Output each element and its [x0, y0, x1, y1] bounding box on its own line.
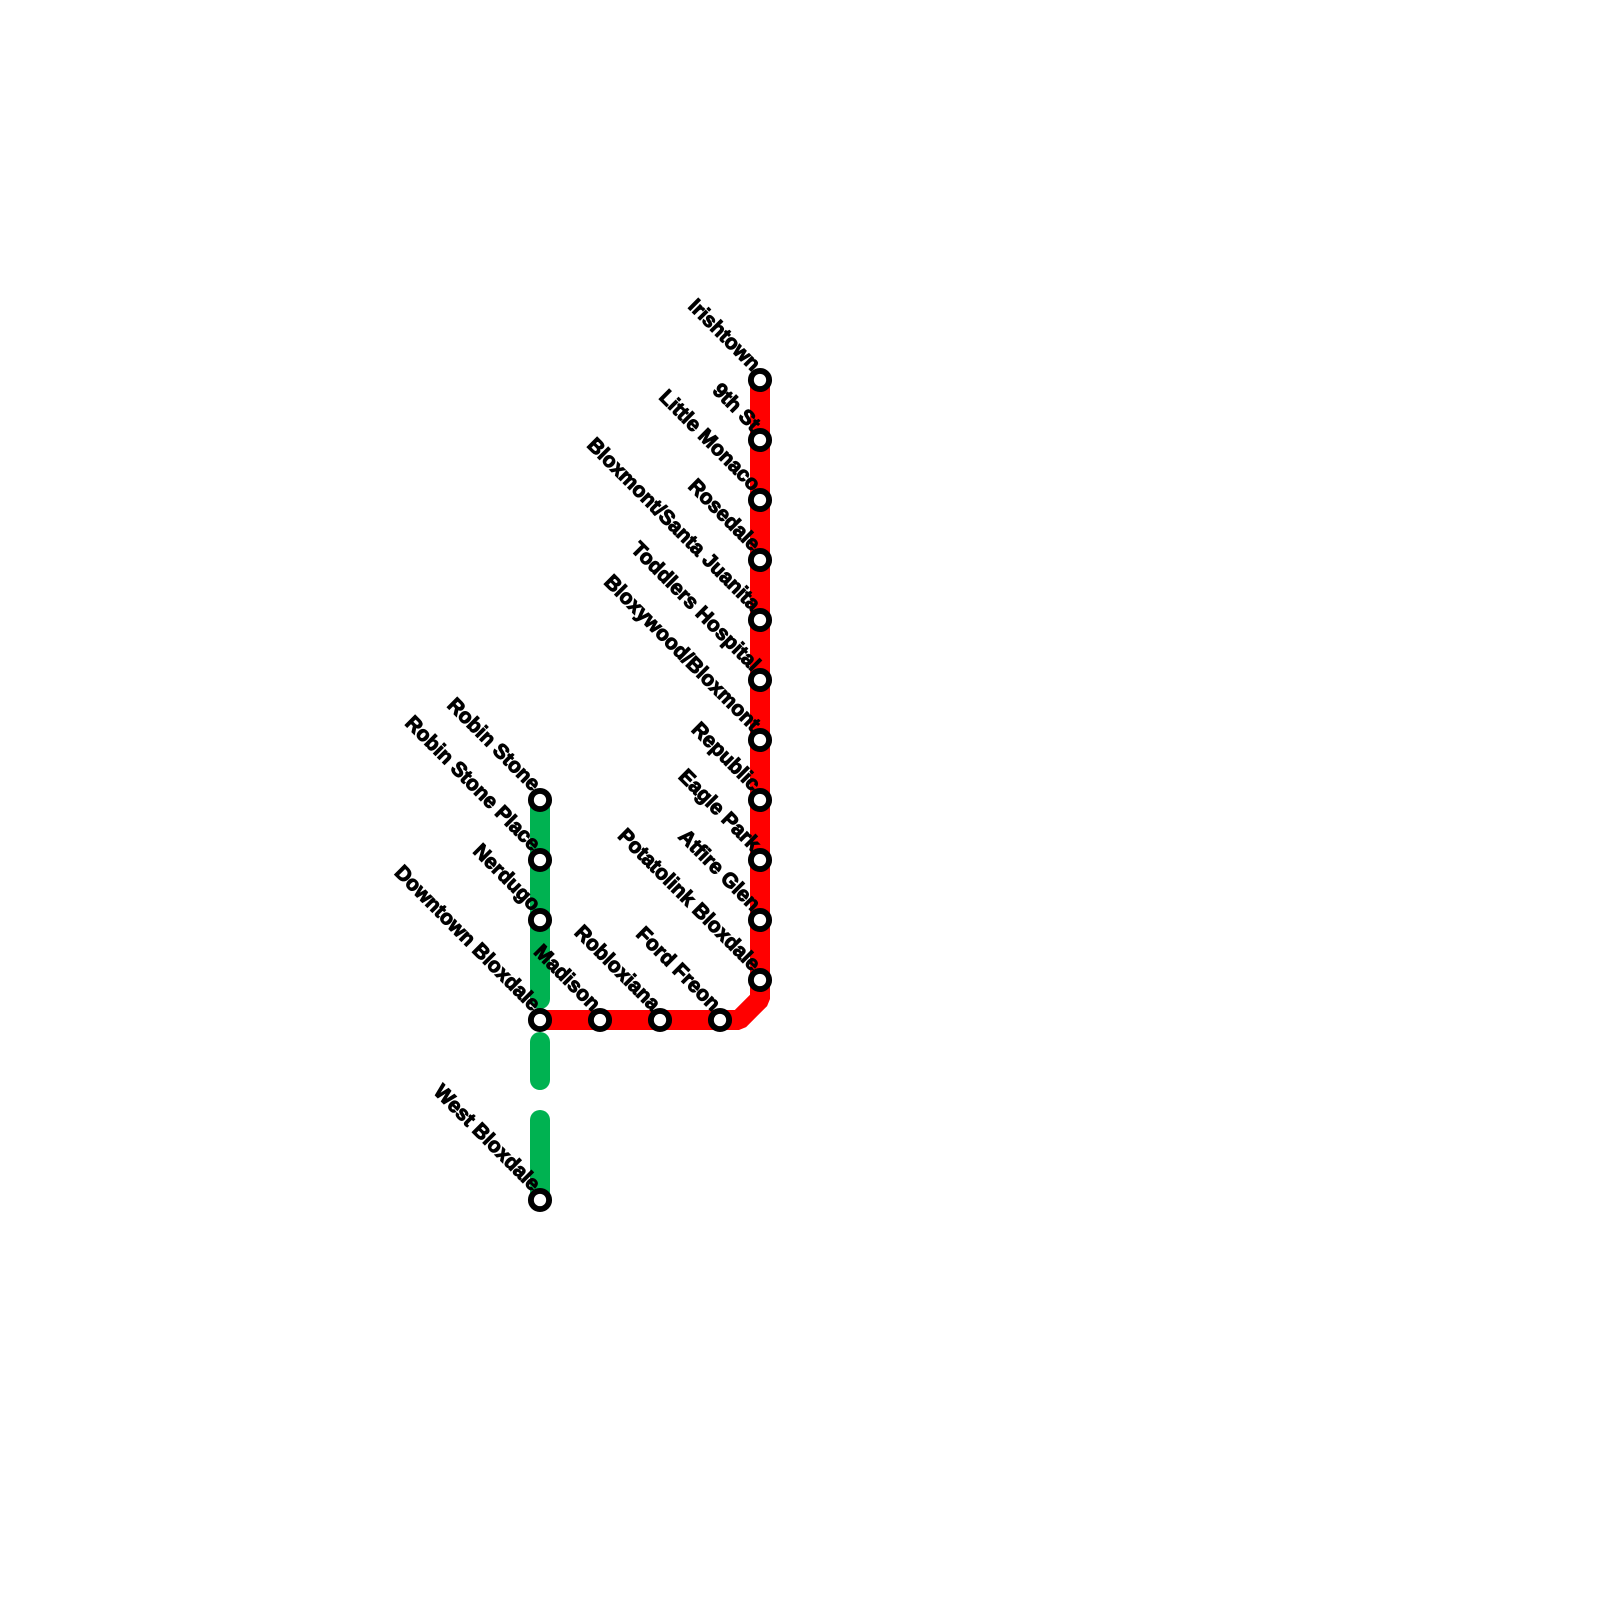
station Downtown Bloxdale marker	[531, 1011, 549, 1029]
station West Bloxdale marker	[531, 1191, 549, 1209]
station Toddlers Hospital marker	[751, 671, 769, 689]
station Little Monaco marker	[751, 491, 769, 509]
station Robin Stone marker	[531, 791, 549, 809]
station Madison marker	[591, 1011, 609, 1029]
green line segment Robin Stone to junction at red line	[530, 800, 550, 999]
station Rosedale marker	[751, 551, 769, 569]
station Republic marker	[751, 791, 769, 809]
station Atfire Glen marker	[751, 911, 769, 929]
station Bloxywood/Bloxmont marker	[751, 731, 769, 749]
station Nerdugo marker	[531, 911, 549, 929]
green line short dash below Downtown Bloxdale	[530, 1042, 550, 1080]
green line dashed segment toward West Bloxdale	[530, 1120, 550, 1200]
station 9th St marker	[751, 431, 769, 449]
station Robin Stone Place marker	[531, 851, 549, 869]
station Ford Freon marker	[711, 1011, 729, 1029]
station Potatolink Bloxdale marker	[751, 971, 769, 989]
station Bloxmont/Santa Juanita marker	[751, 611, 769, 629]
station Irishtown marker	[751, 371, 769, 389]
red line Irishtown to Downtown Bloxdale with 45-degree bend	[540, 380, 760, 1020]
station Robloxiana marker	[651, 1011, 669, 1029]
station Eagle Park marker	[751, 851, 769, 869]
